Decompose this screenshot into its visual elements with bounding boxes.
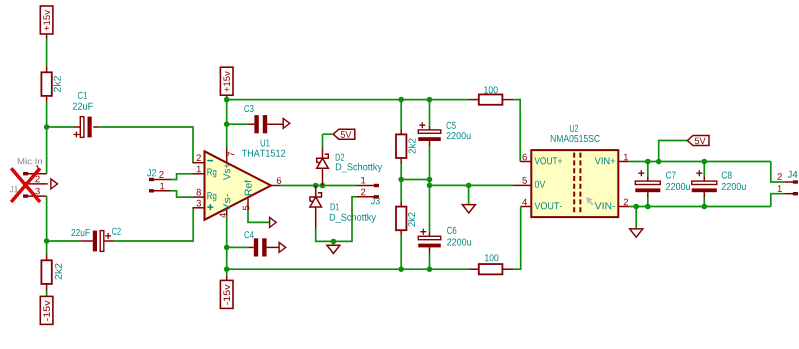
wire rail to J4 pin 1 (771, 194, 785, 207)
junction divider bottom (398, 266, 404, 272)
wire R5 to U2 pin 6 (514, 100, 521, 162)
junction +15v column (224, 97, 230, 103)
junction -15v column (224, 266, 230, 272)
J1 DNP cross (11, 168, 40, 202)
+15v rail wire (227, 99, 469, 101)
wire R6 to U2 pin 4 (514, 207, 521, 270)
junction D2 tap (320, 183, 326, 189)
U1 pin 6 output (271, 185, 280, 187)
junction divider mid (398, 177, 404, 183)
junction D1 tap (313, 183, 319, 189)
wire U2 pin 2 rail (629, 206, 771, 208)
wire C2 to op-amp pin 3 (114, 208, 193, 241)
power flag -15v (bottom-left) (46, 290, 48, 296)
resistor R2 2k2 (bottom-left) (46, 255, 48, 261)
junction ground tap (VIN-) (633, 204, 639, 210)
junction C3 tap (224, 121, 230, 127)
wire node A to C1 (47, 126, 74, 128)
capacitor C4 (227, 246, 249, 248)
junction 0V ground tap (466, 183, 472, 189)
power flag +15v (above op-amp) (220, 67, 233, 95)
wire node B to C2 (47, 240, 81, 242)
U1 pin 4 Vs- (226, 209, 228, 217)
junction C5 top (427, 97, 433, 103)
ground symbol (D1) (332, 241, 334, 245)
wire R4 to -15v rail (400, 236, 402, 270)
wire C6 to -15v rail (429, 254, 431, 270)
U2 pin 6 VOUT+ (523, 154, 527, 161)
wire C1 to op-amp pin 2 (99, 127, 193, 163)
J3 pin 2 (357, 196, 379, 198)
power flag +15v (top-left) (40, 6, 53, 34)
J2 pin 2 (149, 178, 154, 181)
diode D1 D_Schottky (315, 186, 317, 198)
U2 pin 5 0V (513, 184, 532, 186)
wire R1 to node A (46, 102, 48, 174)
U2 pin 4 VOUT- (522, 199, 527, 206)
J2 pin 1 (149, 189, 154, 192)
J4 pin 1 (784, 193, 798, 195)
junction mid jog bottom (427, 183, 433, 189)
wire J2 pin2 to op-amp pin 1 (171, 174, 193, 180)
U2 pin 1 VIN+ (618, 161, 629, 163)
-15v rail wire (227, 268, 469, 270)
capacitor C6 2200u (429, 185, 431, 231)
U1 pin 3 (+) (192, 207, 204, 209)
capacitor C5 2200u (429, 100, 431, 126)
connector J4 (788, 171, 798, 178)
junction C8 top (702, 159, 708, 165)
J1 pin 1 (23, 172, 28, 175)
junction C8 bottom (702, 204, 708, 210)
node B junction (44, 238, 50, 244)
U1 pin 1 (Rg) (192, 173, 204, 175)
wire pin 5 to arrow (248, 211, 270, 223)
junction C7 top (645, 159, 651, 165)
5V flag (over D2) (333, 129, 355, 139)
resistor R3 2k2 (upper divider) (400, 100, 402, 130)
connector J1 (Mic In, DNP) (18, 158, 42, 165)
junction ground tap (331, 239, 337, 245)
wire J1 pin3 to node B (46, 196, 48, 255)
C4 unconnected arrow (279, 242, 286, 252)
wire +15v to R1 (46, 39, 48, 67)
C3 unconnected arrow (283, 118, 290, 128)
capacitor C7 2200u (647, 162, 649, 177)
wire R3 to mid node (400, 164, 402, 201)
junction 5V tap (656, 159, 662, 165)
connector J3 (371, 197, 380, 204)
wire J2 pin1 to op-amp pin 8 (171, 191, 193, 197)
junction divider top (398, 97, 404, 103)
resistor R6 100 (bottom) (469, 268, 479, 270)
U1 pin 8 (Rg) (192, 196, 204, 198)
op-amp U1 THAT1512 (205, 151, 272, 220)
diode D2 D_Schottky (322, 148, 324, 158)
ground symbol (0V) (468, 185, 470, 204)
wire rail to J4 pin 2 (771, 162, 785, 183)
U2 pin 2 VIN- (618, 206, 629, 208)
resistor R4 2k2 (lower divider) (400, 202, 402, 207)
ground symbol (VIN-) (635, 207, 637, 229)
U1 pin 5 Ref (247, 198, 249, 211)
U1 pin 2 (-) (192, 162, 204, 164)
resistor R1 2k2 (top-left) (46, 66, 48, 72)
capacitor C1 22uF (74, 126, 80, 128)
mouse cursor (586, 197, 593, 206)
Ref unconnected arrow (270, 217, 277, 227)
node A junction (44, 124, 50, 130)
wire C5 to mid rail (429, 146, 431, 179)
J1 pin 3 (23, 194, 28, 197)
power flag -15v (below op-amp) (226, 269, 228, 276)
J4 pin 2 (784, 181, 798, 183)
junction mid jog top (427, 177, 433, 183)
connector J2 (147, 169, 156, 176)
wire +15v down to op-amp pin 7 (226, 100, 228, 148)
wire U2 pin 1 rail (629, 161, 771, 163)
capacitor C2 22uF (80, 240, 93, 242)
wire 5V to D2 (323, 134, 334, 148)
wire divider mid jog (401, 180, 512, 186)
junction C7 bottom (645, 204, 651, 210)
wire D1 to ground loop and J3 pin 2 (316, 197, 357, 242)
J1 pin 2 (23, 182, 28, 185)
J1 pin 2 unconnected arrow (51, 179, 58, 189)
DC-DC converter U2 NMA0515SC (531, 150, 618, 217)
wire op-amp pin 4 to -15v rail (226, 217, 228, 270)
J3 pin 1 (357, 185, 379, 187)
U1 pin 7 Vs+ (226, 148, 228, 163)
junction C4 tap (224, 245, 230, 251)
5V flag (right) (659, 141, 688, 162)
capacitor C3 (227, 123, 249, 125)
resistor R5 100 (top) (469, 99, 479, 101)
wire op-amp output (280, 185, 356, 187)
junction C6 bottom (427, 266, 433, 272)
capacitor C8 2200u (703, 162, 705, 177)
